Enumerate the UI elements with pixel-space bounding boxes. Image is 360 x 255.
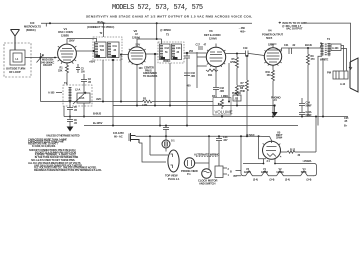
label center pin grounded bbox=[143, 67, 158, 78]
svg-text:51: 51 bbox=[165, 51, 168, 54]
filament V4 bbox=[301, 168, 314, 182]
wire V3 grid left bbox=[197, 52, 207, 66]
wire T3 bottom leg bbox=[169, 63, 171, 106]
coil L2A bbox=[70, 87, 80, 104]
wire V3 avc takeoff bbox=[228, 63, 230, 102]
svg-text:400~: 400~ bbox=[240, 30, 246, 34]
phono jack J5 bbox=[271, 95, 280, 116]
capacitor C23 .047 bbox=[216, 136, 228, 142]
svg-text:47: 47 bbox=[204, 44, 207, 47]
node V2 cathode bbox=[136, 105, 138, 107]
svg-text:100: 100 bbox=[81, 70, 86, 73]
wire rail tick bbox=[45, 23, 47, 26]
node C6 top bbox=[69, 116, 71, 118]
label prong view bbox=[181, 169, 198, 176]
svg-text:VOLUME: VOLUME bbox=[215, 110, 233, 115]
svg-text:.02: .02 bbox=[292, 44, 296, 47]
wire V3 grid bottom bbox=[196, 66, 198, 88]
node R12 B- bbox=[315, 116, 317, 118]
svg-text:P-1: P-1 bbox=[187, 173, 191, 176]
capacitor C5 .05 bbox=[67, 104, 78, 117]
tube V3 pin stubs bbox=[207, 50, 226, 68]
annotation 4 volts to grid bbox=[279, 21, 307, 31]
wire B+ top rail bbox=[41, 22, 252, 24]
svg-text:UNLESS OTHERWISE NOTED: UNLESS OTHERWISE NOTED bbox=[46, 134, 79, 137]
node V5 leg right bbox=[274, 163, 276, 165]
svg-text:PM: PM bbox=[327, 71, 332, 75]
svg-text:V4: V4 bbox=[268, 29, 272, 33]
label R4 1 MEG bbox=[212, 95, 228, 98]
node T2 grid entry bbox=[93, 50, 95, 52]
wire B+105V bus bbox=[84, 125, 298, 127]
svg-text:ALTERNATE WIRING: ALTERNATE WIRING bbox=[194, 152, 219, 156]
volume control box bbox=[213, 98, 233, 116]
svg-text:ON ANT: ON ANT bbox=[43, 64, 52, 67]
node V5 leg left bbox=[263, 163, 265, 165]
capacitor C17 47 bbox=[196, 44, 207, 50]
svg-text:L1: L1 bbox=[16, 58, 19, 61]
svg-text:12BA6: 12BA6 bbox=[276, 171, 284, 174]
wire loop to V1 grid bbox=[25, 57, 58, 59]
svg-text:3 4: 3 4 bbox=[267, 160, 271, 163]
node avc end bbox=[228, 101, 230, 103]
resistor R12 bbox=[281, 148, 317, 157]
wire T2 secondary to V2 bbox=[122, 54, 128, 56]
svg-text:470K: 470K bbox=[239, 85, 245, 88]
svg-text:.05: .05 bbox=[88, 81, 92, 84]
svg-text:→460: →460 bbox=[238, 26, 245, 30]
wire R12 up to B- bbox=[315, 117, 317, 153]
tuning capacitor C1A arrow bbox=[37, 53, 44, 63]
node AC junction 2 bbox=[159, 125, 161, 127]
node C23 top bbox=[218, 135, 220, 137]
svg-text:T3: T3 bbox=[166, 33, 170, 37]
notes block bbox=[28, 134, 102, 172]
svg-text:MICROVOLTS: MICROVOLTS bbox=[24, 25, 41, 29]
svg-text:(3-4): (3-4) bbox=[270, 179, 275, 182]
filament V1 bbox=[261, 168, 277, 182]
svg-text:12AV6: 12AV6 bbox=[244, 171, 252, 174]
svg-text:A-12: A-12 bbox=[340, 83, 346, 86]
coil L2B bbox=[73, 92, 90, 104]
svg-text:B+: B+ bbox=[344, 125, 348, 128]
capacitor C2 100 bbox=[76, 64, 85, 73]
svg-text:C17: C17 bbox=[196, 44, 201, 47]
annotation 460 400~ bbox=[238, 26, 246, 34]
node rail x50 bbox=[49, 22, 51, 24]
svg-text:V3: V3 bbox=[209, 29, 213, 33]
wire T3 left return bbox=[155, 54, 158, 106]
svg-text:AND SWITCH: AND SWITCH bbox=[199, 182, 216, 186]
label right edge caps bbox=[344, 117, 349, 128]
tube V1 pin stubs bbox=[58, 46, 77, 65]
tube V2 bbox=[128, 39, 157, 65]
node T4 return bbox=[322, 116, 324, 118]
svg-text:C21: C21 bbox=[284, 44, 289, 47]
svg-text:60~ AC: 60~ AC bbox=[114, 134, 123, 138]
svg-text:READINGS TAKEN BETWEEN TUBE PI: READINGS TAKEN BETWEEN TUBE PIN TERMINAL… bbox=[34, 169, 102, 172]
svg-text:24: 24 bbox=[114, 49, 117, 52]
svg-text:C12: C12 bbox=[165, 47, 170, 50]
svg-text:PHONO: PHONO bbox=[232, 92, 241, 95]
prong view circle P1 bbox=[184, 158, 194, 168]
wire T1 box left leg bbox=[63, 106, 65, 117]
svg-text:510: 510 bbox=[100, 49, 105, 52]
svg-text:(CONNECT TO 455KC): (CONNECT TO 455KC) bbox=[87, 25, 114, 29]
annotation 40uv conv grid bbox=[87, 20, 114, 29]
wire T4 primary return bbox=[318, 56, 323, 125]
svg-text:470: 470 bbox=[311, 58, 316, 61]
filament V3 bbox=[244, 168, 262, 182]
svg-text:40μV→: 40μV→ bbox=[97, 20, 106, 24]
svg-text:.05: .05 bbox=[74, 109, 78, 112]
resistor R7 470K bbox=[239, 56, 249, 136]
svg-text:≈150MA: ≈150MA bbox=[303, 160, 312, 163]
svg-text:TO CHASSIS: TO CHASSIS bbox=[143, 75, 158, 78]
resistor R1 22K bbox=[58, 63, 69, 76]
node C15 top bbox=[186, 52, 188, 54]
tube V4 bbox=[264, 44, 281, 65]
capacitor C21 .02 bbox=[284, 44, 296, 54]
annotation 100 microvolts bbox=[24, 21, 41, 32]
svg-text:L2-A: L2-A bbox=[75, 89, 80, 92]
wire osc cap line bbox=[83, 85, 85, 117]
svg-text:.005: .005 bbox=[191, 75, 196, 78]
svg-text:470K: 470K bbox=[230, 61, 236, 64]
node R9 top bbox=[307, 47, 309, 49]
svg-text:BLUE: BLUE bbox=[305, 43, 312, 47]
svg-text:(3-4): (3-4) bbox=[285, 179, 290, 182]
svg-text:OF LOOP: OF LOOP bbox=[9, 70, 21, 74]
svg-text:1 MEG: 1 MEG bbox=[221, 95, 228, 98]
node V5 plate tap bbox=[258, 135, 260, 137]
node T2 on B+ bbox=[112, 125, 114, 127]
svg-text:SENSITIVITY AND STAGE GAINS AT: SENSITIVITY AND STAGE GAINS AT 1/2 WATT … bbox=[86, 15, 252, 19]
wire into plug bbox=[150, 136, 168, 155]
svg-text:50MF: 50MF bbox=[306, 114, 313, 117]
wire T3 secondary to V3 bbox=[184, 52, 206, 54]
annotation 455KC T3 bbox=[160, 28, 171, 37]
svg-text:POWER OUTPUT: POWER OUTPUT bbox=[262, 33, 283, 37]
wire V2 cathode bbox=[136, 65, 138, 106]
wire AC line bbox=[136, 135, 259, 137]
svg-text:(600KC): (600KC) bbox=[26, 28, 36, 32]
svg-text:MODELS 572, 573, 574, 575: MODELS 572, 573, 574, 575 bbox=[112, 4, 203, 12]
node switch top bbox=[165, 135, 167, 137]
wire V5 filament legs bbox=[264, 159, 276, 164]
svg-text:@ 455KC: @ 455KC bbox=[160, 28, 171, 32]
tube V3 labels bbox=[204, 29, 221, 40]
resistor R3 2.2M bbox=[142, 98, 153, 108]
capacitor C19 coupling bbox=[243, 47, 249, 57]
node rail T2 feed bbox=[103, 22, 105, 24]
svg-text:1: 1 bbox=[228, 174, 230, 177]
svg-text:PLUG J-1: PLUG J-1 bbox=[168, 177, 180, 181]
svg-text:35W4: 35W4 bbox=[276, 136, 283, 139]
wire T4 secondary leads bbox=[341, 46, 347, 71]
svg-text:+85V: +85V bbox=[89, 60, 95, 64]
filter capacitor C24 50MF bbox=[299, 98, 312, 112]
node T3 left bbox=[154, 53, 156, 55]
svg-text:T4: T4 bbox=[327, 37, 331, 41]
tube V4 pin stubs bbox=[264, 50, 281, 66]
svg-text:R11: R11 bbox=[208, 74, 213, 77]
wire V2 grid return bbox=[120, 55, 122, 102]
output transformer T4 bbox=[322, 37, 341, 56]
svg-text:S-1: S-1 bbox=[171, 140, 175, 143]
svg-text:B+105V: B+105V bbox=[93, 121, 103, 125]
filter capacitor C24A 50MF bbox=[299, 111, 312, 117]
wire output pointer line bbox=[307, 23, 352, 69]
wire filament feed bbox=[240, 136, 242, 163]
wire V1 cathode chain bbox=[66, 76, 68, 85]
svg-text:.05: .05 bbox=[344, 120, 348, 123]
node C16 on B+ bbox=[186, 125, 188, 127]
IF transformer T3 bbox=[158, 42, 184, 63]
node V2 grid bbox=[120, 54, 122, 56]
wire T2 secondary return bbox=[102, 60, 104, 102]
svg-text:455KC: 455KC bbox=[163, 60, 171, 63]
filament loop bbox=[241, 164, 317, 176]
node R7 ac bbox=[246, 135, 248, 137]
capacitor C22 bbox=[163, 125, 169, 137]
wire V2 plate to T3 bbox=[146, 53, 155, 55]
wire V3 right exit bbox=[226, 53, 245, 55]
svg-text:50C5: 50C5 bbox=[266, 36, 273, 40]
svg-text:R4→: R4→ bbox=[212, 95, 217, 98]
svg-text:VAC OUTPUT: VAC OUTPUT bbox=[286, 27, 303, 31]
wire B+85 bus bbox=[113, 105, 275, 107]
AC plug bbox=[129, 133, 139, 143]
antenna bbox=[11, 30, 20, 51]
svg-text:DET & AUDIO: DET & AUDIO bbox=[204, 33, 221, 37]
wire C19 to V4 grid bbox=[249, 54, 264, 56]
svg-text:(3-4): (3-4) bbox=[253, 179, 258, 182]
node R5 bottom bbox=[236, 105, 238, 107]
wire volume bottom bbox=[221, 115, 223, 117]
switch S1 bbox=[162, 136, 175, 151]
resistor R9 bbox=[307, 48, 316, 117]
svg-text:(3-4): (3-4) bbox=[307, 179, 312, 182]
IF transformer T2 bbox=[93, 32, 122, 60]
svg-text:R3: R3 bbox=[143, 98, 147, 101]
capacitor C18 .005 bbox=[213, 67, 225, 98]
capacitor C6 .05 bbox=[67, 117, 78, 127]
wire tuning line down to AVC bbox=[40, 62, 42, 102]
node clock j1 bbox=[208, 135, 210, 137]
svg-text:400: 400 bbox=[187, 85, 192, 88]
terminal B B1 bbox=[230, 171, 241, 179]
tube V1 bbox=[58, 39, 77, 63]
label top view plug bbox=[165, 174, 180, 181]
svg-text:50C5: 50C5 bbox=[301, 171, 307, 174]
tube V5 bbox=[263, 141, 281, 159]
svg-text:R-12: R-12 bbox=[290, 148, 296, 151]
node V2 plate joint bbox=[156, 38, 158, 40]
filament V2 bbox=[276, 168, 300, 182]
label outside turn of loop bbox=[6, 67, 25, 74]
svg-text:C10: C10 bbox=[100, 45, 105, 48]
svg-text:J-2: J-2 bbox=[235, 98, 239, 101]
plug top view ellipse bbox=[168, 150, 179, 172]
svg-text:50MF: 50MF bbox=[306, 104, 313, 107]
node T3 left bottom bbox=[154, 105, 156, 107]
wire R5 down bbox=[236, 71, 238, 106]
svg-text:150V: 150V bbox=[69, 39, 75, 43]
loop coil L1 bbox=[10, 50, 25, 65]
svg-text:B-BUS: B-BUS bbox=[93, 111, 101, 115]
tube V1 labels bbox=[58, 27, 75, 43]
capacitor C3 .05 bbox=[81, 74, 92, 85]
svg-text:.005: .005 bbox=[220, 90, 225, 93]
node T2 bottom bbox=[112, 59, 114, 61]
resistor R5 470K bbox=[230, 54, 239, 72]
svg-text:12AV6: 12AV6 bbox=[209, 36, 217, 40]
wire clock wiring bbox=[195, 146, 219, 169]
wire V5 plate feed bbox=[259, 136, 272, 141]
svg-text:C19: C19 bbox=[243, 47, 248, 50]
wire rail feed into T2 bbox=[103, 23, 105, 37]
wire V1 plate to T2 bbox=[67, 39, 97, 43]
capacitor C15 bbox=[184, 50, 194, 61]
svg-text:.05: .05 bbox=[74, 122, 78, 125]
svg-text:150: 150 bbox=[267, 74, 272, 77]
tube V3 bbox=[206, 44, 225, 67]
node T2 on AVC bbox=[102, 101, 104, 103]
svg-text:12BE6: 12BE6 bbox=[61, 33, 69, 37]
speaker bbox=[327, 58, 358, 92]
svg-text:12BE6: 12BE6 bbox=[261, 171, 269, 174]
wire T2 primary bottom bbox=[112, 60, 114, 126]
node grid wire bbox=[54, 57, 56, 59]
svg-text:50V: 50V bbox=[136, 42, 141, 46]
oscillator coil T1 dashed box bbox=[63, 82, 92, 106]
svg-text:C13: C13 bbox=[176, 47, 181, 50]
wire V4 plate to T4 bbox=[279, 48, 320, 50]
svg-text:T2: T2 bbox=[100, 32, 103, 35]
svg-text:J-5: J-5 bbox=[274, 99, 278, 102]
resistor R11 bbox=[206, 69, 218, 77]
tube V5 labels bbox=[276, 130, 283, 139]
svg-text:100: 100 bbox=[30, 21, 35, 25]
tube V2 pin stubs bbox=[129, 49, 146, 66]
wire bbus drop to ac bbox=[159, 117, 161, 126]
svg-text:AVC: AVC bbox=[96, 97, 101, 101]
tube V4 labels bbox=[262, 29, 283, 47]
svg-text:A-105: A-105 bbox=[48, 92, 55, 95]
capacitor C16 .005 bbox=[184, 72, 196, 88]
wire AVC bus bbox=[41, 101, 214, 103]
wire rail feed into T3 bbox=[157, 23, 162, 44]
label 115-125V 60~ AC bbox=[113, 131, 124, 138]
svg-text:22K: 22K bbox=[58, 69, 63, 72]
wire plug neutral down bbox=[139, 143, 166, 162]
tube V5 pin stubs bbox=[263, 143, 282, 157]
resistor R8 470K bbox=[235, 85, 246, 97]
svg-text:WHITE: WHITE bbox=[320, 58, 329, 62]
node C5 top bbox=[69, 101, 71, 103]
wire V1 grid top bbox=[76, 50, 94, 52]
resistor R10 150 bbox=[266, 65, 275, 116]
svg-text:.047: .047 bbox=[223, 139, 228, 142]
node rail T3 feed bbox=[156, 22, 158, 24]
label clock motor and switch bbox=[198, 178, 218, 185]
ground chassis arrow bbox=[67, 127, 74, 132]
label A-105 bbox=[48, 92, 62, 95]
node volume bottom bbox=[221, 116, 223, 118]
node osc on B- bbox=[83, 116, 85, 118]
svg-text:A-104: A-104 bbox=[332, 47, 339, 50]
wire V5 cathode return bbox=[259, 136, 266, 159]
node T3 bottom bbox=[169, 105, 171, 107]
node loop junction bbox=[40, 57, 42, 59]
clock motor bbox=[202, 169, 212, 179]
phono jack J2 bbox=[232, 92, 241, 101]
annotation mod gen on ant bbox=[41, 59, 54, 68]
svg-text:24: 24 bbox=[177, 51, 180, 54]
node R10 bottom bbox=[272, 116, 274, 118]
svg-text:K=1000, M=1,000,000.: K=1000, M=1,000,000. bbox=[32, 145, 56, 148]
label alternate wiring bbox=[194, 152, 219, 156]
loop antenna dashed box bbox=[4, 43, 31, 77]
switch box bbox=[215, 166, 230, 178]
node C24 on B- bbox=[301, 116, 303, 118]
node filament feed bbox=[240, 135, 242, 137]
wire B- bus bbox=[64, 116, 348, 118]
node AC junction 1 bbox=[149, 135, 151, 137]
svg-text:B: B bbox=[230, 171, 232, 174]
svg-text:250: 250 bbox=[189, 50, 194, 53]
wire clock drop bbox=[209, 136, 219, 146]
node R7 top bbox=[246, 55, 248, 57]
svg-text:100: 100 bbox=[139, 67, 144, 70]
svg-text:33: 33 bbox=[298, 154, 301, 157]
wire C15 down bbox=[186, 61, 188, 126]
tube V2 labels bbox=[132, 29, 141, 46]
wire T4 left top bbox=[320, 43, 322, 48]
node V2 grid avc bbox=[120, 101, 122, 103]
node R5 top bbox=[236, 53, 238, 55]
svg-text:C11: C11 bbox=[113, 45, 118, 48]
